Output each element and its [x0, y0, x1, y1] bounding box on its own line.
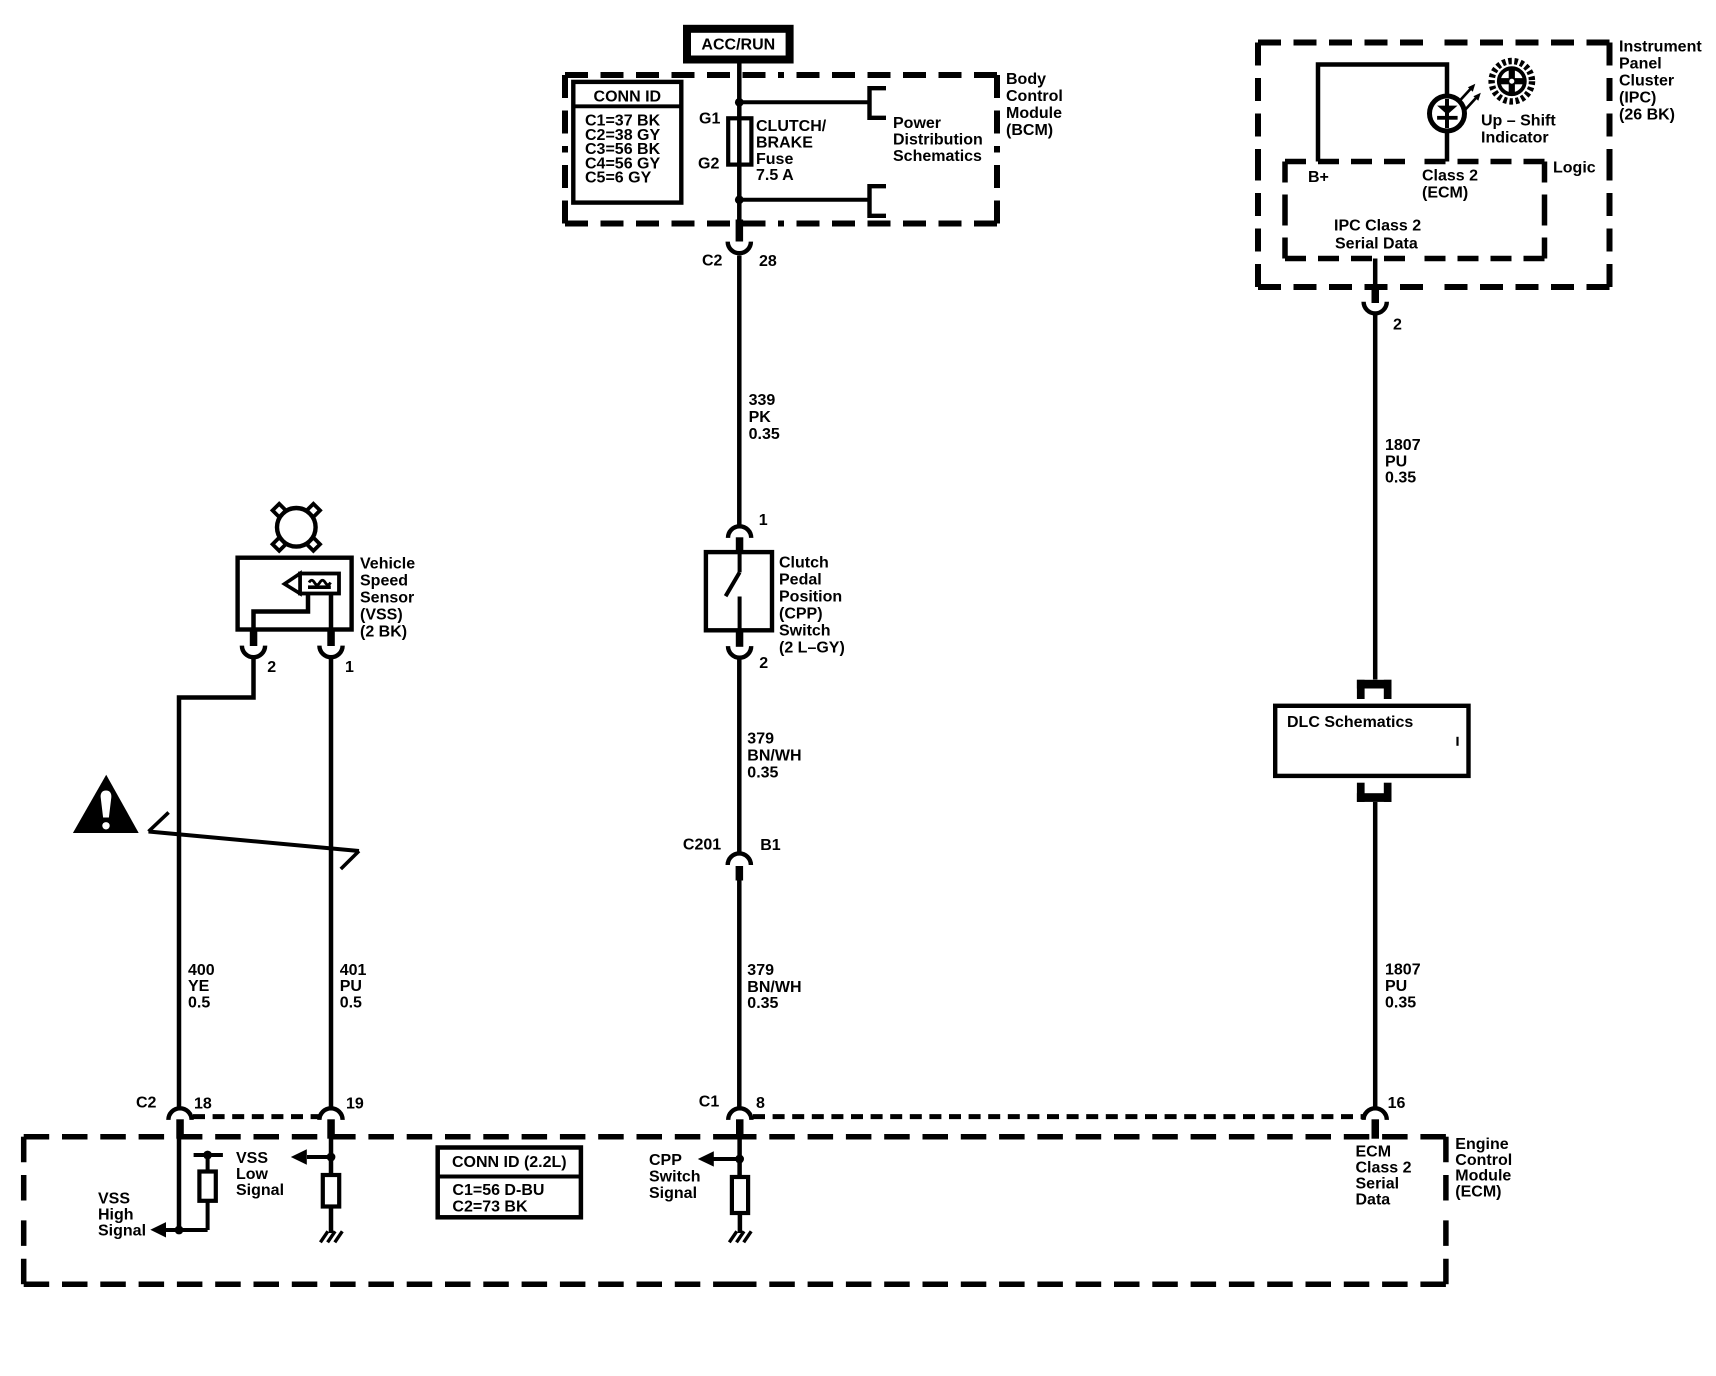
- CONN ID (2.2L) table: [438, 1148, 581, 1218]
- svg-text:339: 339: [749, 392, 776, 409]
- svg-text:Signal: Signal: [649, 1185, 697, 1202]
- svg-text:VSS: VSS: [236, 1150, 268, 1167]
- svg-text:Signal: Signal: [236, 1182, 284, 1199]
- LED up-shift indicator lamp: [1430, 96, 1465, 131]
- svg-text:Data: Data: [1356, 1192, 1391, 1209]
- svg-text:18: 18: [194, 1096, 212, 1113]
- svg-text:16: 16: [1388, 1095, 1406, 1112]
- svg-text:G1: G1: [699, 110, 720, 127]
- power feed box ACC/RUN: [687, 29, 790, 60]
- BCM dashed box: [565, 75, 997, 224]
- connector face dotted line (C2 side): [193, 1114, 319, 1119]
- svg-text:Speed: Speed: [360, 573, 408, 590]
- svg-text:0.35: 0.35: [747, 765, 778, 782]
- svg-text:(CPP): (CPP): [779, 605, 823, 622]
- svg-text:Low: Low: [236, 1166, 269, 1183]
- svg-text:Indicator: Indicator: [1481, 130, 1549, 147]
- fuse CLUTCH/BRAKE 7.5A: [698, 110, 827, 184]
- svg-text:Up – Shift: Up – Shift: [1481, 113, 1556, 130]
- connector C2 pin 18 (ECM): [136, 1095, 212, 1139]
- label Clutch Pedal Position (CPP) Switch: [779, 554, 845, 656]
- svg-text:Fuse: Fuse: [756, 151, 793, 168]
- svg-text:0.35: 0.35: [749, 426, 780, 443]
- svg-text:B1: B1: [760, 837, 781, 854]
- wire B+ feed loop: [1318, 65, 1447, 162]
- svg-text:VSS: VSS: [98, 1190, 130, 1207]
- ground (VSS low): [320, 1231, 342, 1242]
- wire logic to IPC connector: [1373, 259, 1378, 289]
- wire VSS internal leads: [254, 594, 309, 630]
- svg-text:PU: PU: [1385, 978, 1407, 995]
- svg-text:C2=73 BK: C2=73 BK: [452, 1198, 528, 1215]
- connector C201 pin B1 (inline): [683, 837, 781, 881]
- ECM dashed box (Engine Control Module): [24, 1137, 1446, 1285]
- wire VSS high inside ECM: [177, 1138, 182, 1232]
- resistor CPP pull: [732, 1177, 748, 1213]
- svg-text:401: 401: [340, 962, 367, 979]
- svg-text:CONN ID (2.2L): CONN ID (2.2L): [452, 1154, 567, 1171]
- label VSS High Signal: [98, 1190, 146, 1239]
- label Vehicle Speed Sensor (VSS) (2 BK): [360, 556, 415, 641]
- arrow VSS Low Signal: [291, 1149, 307, 1164]
- svg-text:G2: G2: [698, 155, 719, 172]
- svg-text:1807: 1807: [1385, 437, 1421, 454]
- label Body Control Module (BCM): [1006, 71, 1063, 139]
- svg-text:(26 BK): (26 BK): [1619, 107, 1675, 124]
- wire CPP inside ECM: [737, 1138, 742, 1177]
- svg-text:Cluster: Cluster: [1619, 73, 1674, 90]
- svg-text:High: High: [98, 1206, 134, 1223]
- off-page bracket below DLC: [1357, 783, 1392, 802]
- connector pin 1 (VSS): [319, 630, 354, 676]
- twisted pair symbol across wires 400/401: [149, 812, 360, 869]
- wire 1807 PU 0.35 (lower): [1375, 802, 1420, 1107]
- svg-text:BN/WH: BN/WH: [747, 979, 801, 996]
- sensor VSS (Vehicle Speed Sensor) box: [238, 558, 352, 630]
- svg-text:400: 400: [188, 962, 215, 979]
- svg-text:C1=56 D-BU: C1=56 D-BU: [452, 1182, 544, 1199]
- svg-text:0.35: 0.35: [1385, 995, 1416, 1012]
- switch CPP (Clutch Pedal Position): [706, 552, 772, 630]
- wire 401 PU 0.5: [331, 659, 366, 1108]
- svg-text:Body: Body: [1006, 71, 1046, 88]
- VSS sensor rotor (toothed wheel): [273, 504, 320, 551]
- svg-text:Power: Power: [893, 115, 941, 132]
- gear icon (up-shift): [1492, 61, 1532, 101]
- svg-text:Signal: Signal: [98, 1223, 146, 1240]
- wire VSS low inside ECM: [329, 1138, 334, 1175]
- CONN ID table (BCM): [573, 82, 681, 203]
- svg-text:Serial Data: Serial Data: [1335, 236, 1418, 253]
- label Up - Shift Indicator: [1481, 113, 1556, 147]
- svg-text:28: 28: [759, 253, 777, 270]
- svg-text:YE: YE: [188, 978, 210, 995]
- wire 379 BN/WH 0.35 (upper): [739, 659, 801, 853]
- svg-text:7.5 A: 7.5 A: [756, 167, 794, 184]
- svg-text:Schematics: Schematics: [893, 148, 982, 165]
- label Engine Control Module (ECM): [1455, 1136, 1512, 1200]
- svg-text:C1: C1: [699, 1094, 720, 1111]
- ground (CPP): [729, 1231, 751, 1242]
- wire 1807 PU 0.35 (upper): [1375, 315, 1420, 680]
- svg-text:Switch: Switch: [779, 622, 831, 639]
- node CPP junction: [714, 1155, 744, 1164]
- svg-text:C5=6 GY: C5=6 GY: [585, 170, 652, 187]
- connector pin 16 (ECM): [1364, 1095, 1406, 1139]
- svg-text:(2 L–GY): (2 L–GY): [779, 639, 845, 656]
- node IPC Class 2 Serial Data: [1334, 218, 1421, 253]
- label Instrument Panel Cluster (IPC) (26 BK): [1619, 38, 1702, 123]
- connector pin 2 (CPP switch): [728, 630, 768, 672]
- svg-text:Class 2: Class 2: [1422, 168, 1478, 185]
- node ECM Class 2 Serial Data: [1356, 1143, 1412, 1208]
- svg-text:379: 379: [747, 730, 774, 747]
- svg-text:Position: Position: [779, 588, 842, 605]
- svg-text:8: 8: [756, 1095, 765, 1112]
- off-page bracket above DLC: [1357, 680, 1392, 699]
- svg-text:ACC/RUN: ACC/RUN: [701, 36, 775, 53]
- svg-text:Vehicle: Vehicle: [360, 556, 415, 573]
- svg-text:BN/WH: BN/WH: [747, 748, 801, 765]
- svg-text:C201: C201: [683, 837, 721, 854]
- svg-text:Class 2: Class 2: [1356, 1159, 1412, 1176]
- connector pin 1 (CPP switch): [728, 512, 768, 554]
- connector pin 2 (IPC): [1364, 288, 1402, 334]
- wire to ground (CPP): [738, 1213, 743, 1233]
- wire ACC/RUN feed through BCM: [737, 63, 742, 221]
- svg-text:Control: Control: [1455, 1152, 1512, 1169]
- label CPP Switch Signal: [649, 1152, 701, 1202]
- connector pin 19 (ECM): [319, 1095, 363, 1138]
- node VSS high junction: [162, 1226, 208, 1235]
- connector face dotted line (C1 side): [753, 1114, 1363, 1119]
- svg-text:Serial: Serial: [1356, 1176, 1400, 1193]
- svg-text:Logic: Logic: [1553, 160, 1596, 177]
- svg-text:Sensor: Sensor: [360, 590, 414, 607]
- resistor VSS high pull: [194, 1151, 223, 1230]
- svg-text:Instrument: Instrument: [1619, 38, 1702, 55]
- IPC dashed box (Instrument Panel Cluster): [1258, 43, 1610, 288]
- svg-text:PU: PU: [1385, 454, 1407, 471]
- svg-text:C2: C2: [136, 1095, 157, 1112]
- arrow VSS High Signal: [150, 1222, 166, 1237]
- svg-text:1807: 1807: [1385, 962, 1421, 979]
- svg-text:DLC Schematics: DLC Schematics: [1287, 714, 1413, 731]
- arrow CPP Switch Signal: [698, 1151, 714, 1166]
- svg-text:IPC Class 2: IPC Class 2: [1334, 218, 1421, 235]
- off-page bracket to Power Distribution (lower): [870, 186, 887, 216]
- svg-text:PK: PK: [749, 409, 772, 426]
- label VSS Low Signal: [236, 1150, 284, 1199]
- svg-text:ECM: ECM: [1356, 1143, 1392, 1160]
- svg-text:CPP: CPP: [649, 1152, 682, 1169]
- connector pin 2 (VSS): [242, 630, 276, 676]
- svg-text:Distribution: Distribution: [893, 132, 983, 149]
- svg-text:2: 2: [267, 659, 276, 676]
- svg-text:Control: Control: [1006, 88, 1063, 105]
- VSS pickup element (pencil icon): [285, 574, 340, 594]
- wire 339 PK 0.35: [739, 256, 780, 526]
- svg-text:19: 19: [346, 1095, 364, 1112]
- svg-text:2: 2: [1393, 317, 1402, 334]
- connector C2 pin 28 (BCM output): [702, 220, 777, 270]
- svg-text:2: 2: [759, 655, 768, 672]
- svg-text:PU: PU: [340, 978, 362, 995]
- svg-text:B+: B+: [1308, 169, 1329, 186]
- svg-text:0.35: 0.35: [1385, 470, 1416, 487]
- wire 379 BN/WH 0.35 (lower): [739, 879, 801, 1108]
- svg-text:1: 1: [759, 512, 768, 529]
- svg-text:Switch: Switch: [649, 1169, 701, 1186]
- IPC logic dashed box: [1285, 162, 1545, 259]
- svg-text:0.35: 0.35: [747, 995, 778, 1012]
- svg-text:(VSS): (VSS): [360, 607, 403, 624]
- svg-text:CONN ID: CONN ID: [594, 89, 662, 106]
- connector C1 pin 8 (ECM): [699, 1094, 765, 1139]
- node VSS low junction: [307, 1153, 335, 1162]
- warning triangle note: [73, 775, 139, 833]
- svg-text:(2 BK): (2 BK): [360, 624, 407, 641]
- svg-text:379: 379: [747, 962, 774, 979]
- node junction G2 branch: [735, 195, 870, 204]
- LED light emission arrows: [1459, 84, 1481, 111]
- resistor VSS low pull: [323, 1175, 339, 1207]
- label Power Distribution Schematics: [893, 115, 983, 165]
- svg-text:0.5: 0.5: [188, 995, 210, 1012]
- off-page bracket to Power Distribution (upper): [870, 88, 887, 118]
- svg-text:C2: C2: [702, 252, 723, 269]
- svg-text:CLUTCH/: CLUTCH/: [756, 118, 827, 135]
- svg-text:(BCM): (BCM): [1006, 122, 1053, 139]
- wire 400 YE 0.5: [179, 659, 254, 1108]
- wire LED to logic: [1445, 131, 1450, 162]
- node junction G1 branch: [735, 98, 870, 107]
- svg-text:BRAKE: BRAKE: [756, 134, 813, 151]
- svg-text:(IPC): (IPC): [1619, 90, 1656, 107]
- svg-text:(ECM): (ECM): [1422, 185, 1468, 202]
- svg-text:Panel: Panel: [1619, 55, 1662, 72]
- svg-text:Clutch: Clutch: [779, 554, 829, 571]
- wire to ground (VSS low): [329, 1207, 334, 1234]
- svg-text:1: 1: [345, 659, 354, 676]
- svg-text:Engine: Engine: [1455, 1136, 1508, 1153]
- DLC Schematics box: [1275, 706, 1468, 776]
- svg-text:0.5: 0.5: [340, 995, 362, 1012]
- svg-text:(ECM): (ECM): [1455, 1183, 1501, 1200]
- svg-text:Module: Module: [1455, 1168, 1511, 1185]
- svg-text:Module: Module: [1006, 105, 1062, 122]
- node Class 2 (ECM): [1422, 168, 1478, 202]
- svg-text:Pedal: Pedal: [779, 571, 822, 588]
